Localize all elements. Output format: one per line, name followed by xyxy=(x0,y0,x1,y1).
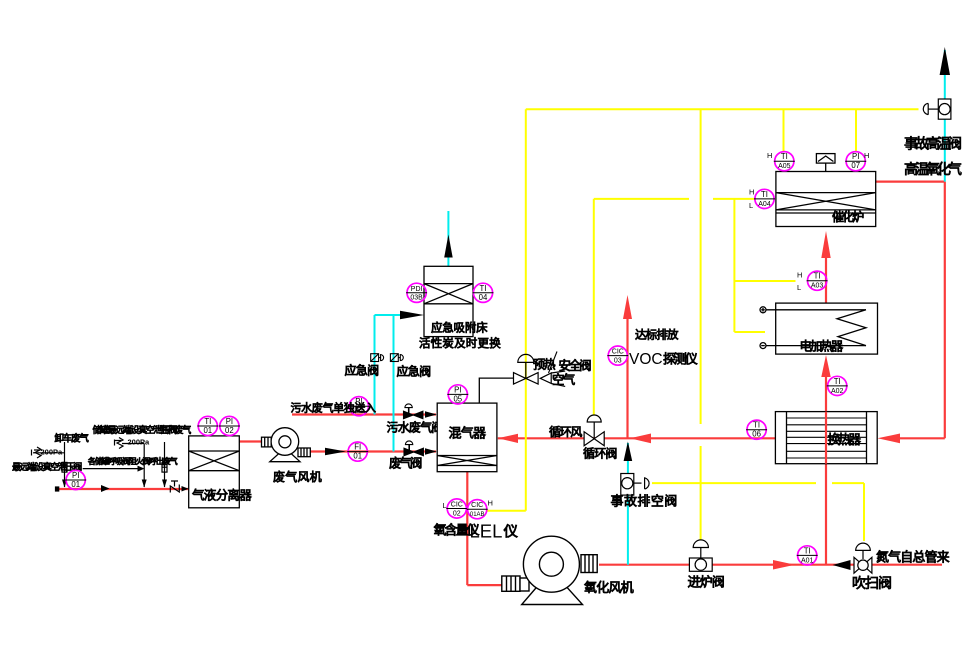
svg-text:废气风机: 废气风机 xyxy=(273,469,322,484)
svg-text:06: 06 xyxy=(752,430,761,439)
wire signal blowdown valve right xyxy=(832,482,864,484)
svg-text:A05: A05 xyxy=(778,163,791,170)
svg-text:LEL: LEL xyxy=(470,521,503,542)
wire blowdown upper xyxy=(627,443,629,473)
svg-text:TI: TI xyxy=(814,272,821,281)
air intake open arrow xyxy=(540,373,551,383)
svg-text:混气器: 混气器 xyxy=(449,426,487,441)
relief valve PSV2 xyxy=(115,438,123,449)
svg-text:达标排放: 达标排放 xyxy=(635,328,679,342)
svg-text:废气阀: 废气阀 xyxy=(389,456,422,471)
valve furnace inlet xyxy=(689,558,712,571)
heater element top lead xyxy=(766,309,866,311)
wire signal CIC01AB link xyxy=(487,510,526,512)
svg-text:PDI: PDI xyxy=(411,286,423,293)
fan casing circle xyxy=(271,428,299,456)
label slash xyxy=(549,352,558,374)
wire emergency drop 2 xyxy=(393,315,395,452)
valve emergency high temp xyxy=(938,99,951,119)
arrow red left at VOC junction xyxy=(630,434,651,444)
svg-text:循环风: 循环风 xyxy=(549,425,582,439)
wire VOC stack vertical xyxy=(626,316,628,438)
svg-text:电加热器: 电加热器 xyxy=(800,340,844,354)
svg-text:02: 02 xyxy=(225,426,234,435)
arrow black right on main header xyxy=(101,485,110,492)
red line through heatex vertical xyxy=(825,412,827,464)
heater shell xyxy=(776,303,878,354)
actuator dome purge valve xyxy=(856,543,871,550)
svg-text:05: 05 xyxy=(453,394,462,403)
arrow black down tank line xyxy=(142,480,147,488)
svg-text:事故高温阀: 事故高温阀 xyxy=(904,136,961,152)
fan support triangle xyxy=(522,570,583,605)
svg-text:TI: TI xyxy=(804,546,811,555)
svg-text:A02: A02 xyxy=(831,388,844,395)
svg-text:TI: TI xyxy=(834,377,841,386)
wire tank farm PSV link xyxy=(122,443,144,445)
wire signal TIA04 left segment xyxy=(594,198,689,200)
arrow black right breathing line xyxy=(138,466,145,472)
svg-text:应急阀: 应急阀 xyxy=(397,364,431,379)
arrow black into mixer top port xyxy=(425,411,437,417)
node PSV2 tick xyxy=(114,440,116,446)
instrument TI 04 xyxy=(473,283,494,302)
valve safety control body xyxy=(514,373,539,385)
wire separator outlet to fan xyxy=(239,440,263,442)
svg-text:安全阀: 安全阀 xyxy=(559,358,592,373)
instrument TI A03 xyxy=(807,271,828,290)
wire signal long vertical x525 xyxy=(525,109,527,510)
svg-text:进炉阀: 进炉阀 xyxy=(688,575,724,590)
wire truck offgas vertical xyxy=(64,442,66,487)
valve waste gas xyxy=(404,448,414,456)
wire signal top horizontal xyxy=(526,108,919,110)
svg-text:吹扫阀: 吹扫阀 xyxy=(852,575,891,591)
valve inlet shutoff before separator xyxy=(170,481,179,493)
wire sewage waste gas line xyxy=(292,413,436,415)
svg-text:L: L xyxy=(749,201,753,210)
heater element bottom lead xyxy=(766,345,866,347)
svg-text:07: 07 xyxy=(851,161,860,170)
svg-text:L: L xyxy=(797,283,801,292)
svg-text:生产废气: 生产废气 xyxy=(159,424,191,435)
svg-text:PI: PI xyxy=(226,417,233,426)
arrow black bed vent xyxy=(444,235,453,258)
arrow black blowdown up xyxy=(624,442,633,462)
svg-text:200Pa: 200Pa xyxy=(128,438,151,447)
wire emergency drop 1 xyxy=(374,315,376,415)
svg-text:H: H xyxy=(797,271,802,280)
instrument TI A02 xyxy=(827,376,848,395)
actuator dome safety valve xyxy=(518,354,534,362)
wire signal blowdown valve left xyxy=(652,482,816,484)
rupture disc xyxy=(816,154,835,164)
svg-text:CIC: CIC xyxy=(451,502,463,509)
svg-text:PI: PI xyxy=(852,152,859,161)
node main line start tick xyxy=(56,487,59,491)
arrow black right into separator xyxy=(182,486,189,492)
instrument PI 05 xyxy=(447,385,468,404)
svg-text:200Pa: 200Pa xyxy=(41,448,64,457)
wire signal TIA04 right segment xyxy=(713,198,755,200)
furnace vessel xyxy=(776,172,876,227)
svg-text:A03: A03 xyxy=(811,283,824,290)
svg-text:应急阀: 应急阀 xyxy=(345,363,379,378)
wire recirculation / heatex left line xyxy=(498,437,776,439)
wire tank farm vertical xyxy=(143,444,145,488)
arrow black top vent up xyxy=(940,47,950,75)
wire signal branch vertical x734 xyxy=(733,199,735,332)
instrument PI 01 xyxy=(65,470,86,489)
svg-text:TI: TI xyxy=(480,284,487,293)
svg-text:01: 01 xyxy=(71,480,80,489)
valve sewage waste gas xyxy=(404,411,414,419)
arrow black right fan to FI01 xyxy=(325,448,346,455)
wire top right vent lower xyxy=(944,119,946,181)
svg-text:FI: FI xyxy=(354,443,361,452)
svg-text:TI: TI xyxy=(761,190,768,199)
arrow black bed inlet xyxy=(400,311,424,319)
arrow black into mixer bottom port xyxy=(425,448,437,454)
instrument CIC 02 xyxy=(446,499,467,518)
adsorption bed vessel xyxy=(424,266,473,336)
instrument PI 04 xyxy=(348,397,369,416)
wire signal heater stub xyxy=(734,331,765,333)
arrow red up into heater xyxy=(821,355,830,377)
instrument TI A04 xyxy=(754,189,775,208)
wire production offgas vertical xyxy=(164,442,166,487)
svg-text:A01: A01 xyxy=(801,557,814,564)
instrument TI 06 xyxy=(746,420,767,439)
svg-text:01AB: 01AB xyxy=(470,512,485,518)
wire bed vent stack xyxy=(447,211,449,266)
svg-text:循环阀: 循环阀 xyxy=(583,447,617,461)
wire signal to TIA05 xyxy=(783,109,785,151)
arrow red up stack outlet xyxy=(623,295,632,319)
wire riser mid above heater xyxy=(825,256,827,303)
svg-text:氧化风机: 氧化风机 xyxy=(584,580,634,595)
svg-text:探测仪: 探测仪 xyxy=(663,352,698,367)
svg-text:CIC: CIC xyxy=(471,502,483,509)
instrument PDI 03B xyxy=(406,283,427,302)
instrument CIC 03 xyxy=(607,346,628,365)
instrument TI 01 xyxy=(197,416,218,435)
wire breathing valve arrow line xyxy=(83,468,138,470)
mixer vessel xyxy=(437,403,497,472)
valve emergency blowdown xyxy=(621,474,634,496)
instrument TI A05 xyxy=(774,152,795,171)
heat exchanger shell xyxy=(775,412,877,464)
wire bed inlet horizontal xyxy=(375,314,402,316)
svg-text:03: 03 xyxy=(614,357,622,364)
svg-text:TI: TI xyxy=(753,421,760,430)
valve manual on production line xyxy=(162,462,167,472)
wire signal purge valve drop xyxy=(863,483,865,541)
fan outlet bellows xyxy=(581,555,597,573)
instrument PI 07 xyxy=(845,152,866,171)
svg-text:气液分离器: 气液分离器 xyxy=(192,488,252,503)
arrow red left into mixer xyxy=(498,434,518,443)
svg-text:CIC: CIC xyxy=(612,349,624,356)
svg-text:H: H xyxy=(488,499,493,508)
fan inlet bellows xyxy=(502,576,520,591)
svg-text:空气: 空气 xyxy=(552,372,576,387)
relief valve PSV1 xyxy=(34,447,41,458)
arrow red flow right on bottom header xyxy=(773,560,795,570)
wire mixer bottom drop xyxy=(466,472,468,585)
svg-text:氮气自总管来: 氮气自总管来 xyxy=(876,550,950,565)
svg-text:L: L xyxy=(443,501,447,510)
instrument TI A01 xyxy=(797,546,818,565)
svg-text:01: 01 xyxy=(203,426,212,435)
svg-text:污水废气阀: 污水废气阀 xyxy=(387,420,443,435)
heater terminal minus xyxy=(760,343,766,349)
wire signal to TIA03 xyxy=(734,280,795,282)
valve emergency 2 xyxy=(390,354,398,362)
valve purge ball valve xyxy=(854,557,872,573)
svg-text:04: 04 xyxy=(479,293,488,302)
actuator dome circulation valve xyxy=(587,415,601,422)
arrow black left nitrogen xyxy=(833,560,851,570)
wire fan outlet to mixer xyxy=(309,450,436,452)
svg-text:H: H xyxy=(767,151,772,160)
svg-text:A04: A04 xyxy=(758,201,771,208)
arrow black down truck line xyxy=(62,480,67,488)
fan inlet bellows xyxy=(262,437,272,447)
svg-text:TI: TI xyxy=(204,417,211,426)
heater terminal plus xyxy=(760,307,766,313)
wire PSV1 link xyxy=(33,452,65,454)
svg-text:活性炭及时更换: 活性炭及时更换 xyxy=(419,336,501,350)
wire red main left header xyxy=(57,488,189,490)
svg-text:卸车废气: 卸车废气 xyxy=(55,433,90,445)
wire mixer top to safety valve xyxy=(479,378,513,403)
wire heatex right stub xyxy=(898,437,945,439)
svg-text:催化炉: 催化炉 xyxy=(832,210,864,224)
wire top right vent xyxy=(944,50,946,99)
fan support triangle xyxy=(270,448,300,462)
actuator dome furnace inlet valve xyxy=(693,540,708,548)
svg-text:事故排空阀: 事故排空阀 xyxy=(611,494,678,509)
wire drop to oxid fan inlet xyxy=(467,584,502,586)
svg-text:换热器: 换热器 xyxy=(828,432,862,447)
wire signal circulation valve vertical xyxy=(593,199,595,417)
wire blowdown lower xyxy=(627,495,629,565)
wire oxid fan outlet bottom header xyxy=(599,564,942,566)
node PSV1 tick xyxy=(31,450,33,456)
separator vessel xyxy=(189,436,240,508)
svg-text:01: 01 xyxy=(353,452,362,461)
wire right vertical from furnace xyxy=(944,182,946,439)
arrow black down production line xyxy=(162,480,167,488)
svg-text:各储罐呼吸阀阻火阀呼出废气: 各储罐呼吸阀阻火阀呼出废气 xyxy=(88,456,178,466)
instrument FI 01 xyxy=(347,442,368,461)
svg-text:VOC: VOC xyxy=(629,351,663,368)
svg-text:高温氧化气: 高温氧化气 xyxy=(904,161,962,177)
svg-text:PI: PI xyxy=(72,471,79,480)
svg-text:H: H xyxy=(864,151,869,160)
svg-text:污水废气单独送入: 污水废气单独送入 xyxy=(291,401,377,415)
heater element zigzag xyxy=(837,310,866,346)
valve emergency 1 xyxy=(371,354,379,362)
svg-text:TI: TI xyxy=(781,152,788,161)
arrow red left into heatex xyxy=(878,434,901,444)
fan outlet bellows xyxy=(298,448,310,457)
svg-text:仪: 仪 xyxy=(504,525,518,541)
instrument CIC 01AB xyxy=(467,500,488,519)
wire riser lower xyxy=(825,374,827,565)
svg-text:02: 02 xyxy=(453,510,461,517)
wire signal vertical x700 upper xyxy=(700,109,702,424)
valve circulation body xyxy=(584,432,604,446)
arrow red up into furnace xyxy=(821,231,830,258)
svg-text:应急吸附床: 应急吸附床 xyxy=(431,321,488,335)
wire furnace outlet xyxy=(876,181,945,183)
valve manual on truck line xyxy=(62,462,67,472)
svg-text:H: H xyxy=(749,188,754,197)
wire signal to PI07 xyxy=(855,109,857,151)
svg-text:03B: 03B xyxy=(410,295,423,302)
svg-text:PI: PI xyxy=(454,385,461,394)
wire signal vertical x700 lower xyxy=(700,446,702,540)
fan casing circle xyxy=(523,536,579,592)
instrument PI 02 xyxy=(219,416,240,435)
